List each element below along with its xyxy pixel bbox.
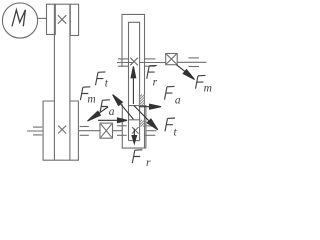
svg-text:r: r xyxy=(146,157,151,169)
svg-text:r: r xyxy=(153,76,158,88)
gear Z2 outer rim xyxy=(122,14,145,148)
motor letter M xyxy=(12,10,25,27)
bearing marks right xyxy=(145,58,156,60)
shaft I vertical band xyxy=(53,4,55,160)
shaft IV axis left xyxy=(117,62,134,64)
svg-text:m: m xyxy=(87,94,95,106)
node crossing shaft IV / gear Z2 xyxy=(130,58,138,66)
force arrow Ft lower mesh diagonal xyxy=(134,106,158,130)
force arrow Fa left xyxy=(98,119,118,121)
shaft II axis left end xyxy=(27,130,43,132)
bearing marks left of gear Z3 xyxy=(117,125,127,127)
shaft II axis right end xyxy=(146,130,157,132)
mesh hatch upper rim section xyxy=(139,95,144,106)
bearing marks left end xyxy=(33,126,42,128)
shaft III vertical band xyxy=(129,22,140,140)
bearing marks right end xyxy=(189,57,200,59)
shaft IV axis right to coupling xyxy=(140,62,166,64)
shaft II axis coupling to gear xyxy=(113,130,123,132)
node crossing shaft II / gear xyxy=(132,127,139,134)
gear Z4 hub top edge xyxy=(129,119,140,121)
svg-text:t: t xyxy=(174,127,178,139)
coupling C2 box xyxy=(100,123,113,138)
svg-text:m: m xyxy=(204,82,212,94)
svg-text:t: t xyxy=(105,78,109,90)
gear Z4 wheel on shaft II xyxy=(122,104,146,148)
svg-text:a: a xyxy=(175,94,181,106)
motor M1 circle xyxy=(2,3,37,38)
force arrow Ft upper mesh diagonal xyxy=(113,95,134,120)
coupling half right xyxy=(70,4,78,35)
label Fa right xyxy=(165,86,175,99)
label Fr lower xyxy=(132,150,142,163)
coupling C3 box xyxy=(166,54,178,65)
coupling cross mark xyxy=(58,15,67,24)
label Ft upper left xyxy=(96,72,106,85)
coupling C2 cross xyxy=(101,124,112,137)
force arrow Fr up xyxy=(132,77,134,104)
force arrow Fr down xyxy=(133,129,135,137)
label Fr upper xyxy=(147,65,157,78)
shaft IV axis right end xyxy=(177,61,206,63)
bearing marks left xyxy=(118,58,129,60)
label Fm left xyxy=(80,87,90,100)
svg-text:a: a xyxy=(109,106,115,118)
force arrow Fm right xyxy=(176,65,186,73)
force arrow Fa right xyxy=(139,106,150,108)
mesh hatch lower rim section xyxy=(140,120,147,127)
shaft II axis wheel to coupling xyxy=(78,130,100,132)
node crossing shaft II / wheel xyxy=(58,126,66,134)
gear wheel Z1 on shaft I xyxy=(43,101,78,160)
coupling half left xyxy=(47,4,56,34)
label Ft lower right xyxy=(165,118,175,131)
label Fa left xyxy=(100,100,110,113)
label Fm right xyxy=(196,75,206,88)
bearing marks right of wheel xyxy=(80,126,89,128)
coupling C3 cross xyxy=(166,54,176,64)
bearing marks right of gear Z3 xyxy=(145,125,156,127)
wire motor to coupling xyxy=(38,17,47,19)
force arrow Fm left xyxy=(90,107,108,119)
